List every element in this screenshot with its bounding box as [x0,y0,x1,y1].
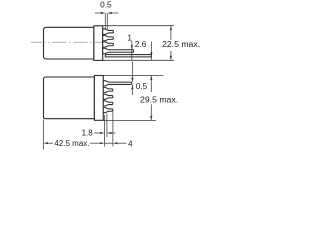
svg-text:2.6: 2.6 [135,39,147,49]
dimension 22.5 max. [170,26,172,61]
extension line V2 [106,114,108,138]
svg-text:22.5 max.: 22.5 max. [162,39,200,49]
extension line V3 (pin tip) [112,112,114,147]
pin 3 [103,42,114,48]
pin A (long) [103,81,132,86]
svg-text:42.5 max.: 42.5 max. [54,139,89,148]
pin E [103,108,113,113]
svg-text:4: 4 [128,139,133,148]
pin B [103,87,113,92]
pin 1 [103,29,114,35]
dimension 29.5 max. [150,76,152,121]
seat line (bottom extension for 22.5) [103,59,174,61]
pin D [103,101,113,106]
top extension line for 22.5 [103,25,174,27]
dimension 0.5 (terminal thickness, top) [95,12,119,29]
body [44,27,94,59]
dimension 4 [105,142,127,144]
flange [94,26,103,61]
centerline [31,41,102,43]
body [44,77,95,119]
svg-text:0.5: 0.5 [136,82,148,91]
svg-text:0.5: 0.5 [100,0,112,9]
pin 4 (long tab) [103,48,134,54]
extension line V1 (flange face) [104,115,106,147]
seat extension line for 29.5 [103,119,156,121]
top extension line for 29.5 [103,74,163,76]
pin 2 [103,35,114,41]
svg-text:1.8: 1.8 [82,129,94,138]
terminal plate [105,55,151,57]
svg-text:29.5 max.: 29.5 max. [140,95,178,105]
dimension 42.5 max. [44,142,105,144]
pin C [103,94,113,99]
dimension 0.5 (bottom figure pin thickness) [131,62,133,96]
flange [94,76,103,121]
extension line V0 (body left) [43,120,45,150]
